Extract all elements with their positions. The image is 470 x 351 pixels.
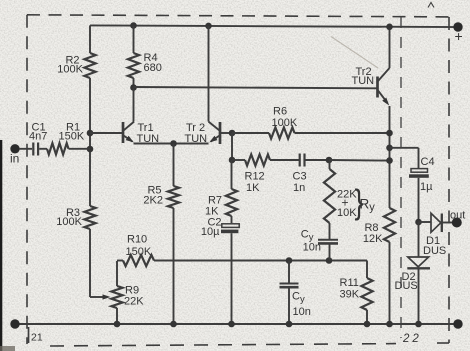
svg-text:1K: 1K: [246, 182, 260, 194]
svg-text:39K: 39K: [340, 289, 360, 301]
svg-text:21: 21: [31, 332, 43, 344]
svg-text:100K: 100K: [56, 216, 82, 228]
svg-text:DUS: DUS: [395, 280, 418, 292]
svg-text:10µ: 10µ: [201, 226, 220, 238]
svg-text:680: 680: [144, 62, 162, 74]
svg-text:2K2: 2K2: [143, 195, 163, 207]
svg-text:C4: C4: [421, 156, 435, 168]
svg-text:1µ: 1µ: [420, 181, 433, 193]
svg-text:R6: R6: [273, 106, 287, 118]
svg-text:150K: 150K: [126, 246, 152, 258]
svg-text:TUN: TUN: [352, 75, 375, 87]
svg-text:22K: 22K: [124, 296, 144, 308]
svg-text:22: 22: [402, 333, 422, 345]
svg-text:12K: 12K: [363, 233, 383, 245]
svg-text:1n: 1n: [293, 182, 305, 194]
svg-text:DUS: DUS: [423, 245, 446, 257]
svg-text:R12: R12: [245, 171, 265, 183]
svg-text:TUN: TUN: [185, 133, 208, 145]
svg-text:out: out: [450, 210, 465, 222]
svg-text:150K: 150K: [59, 131, 85, 143]
svg-text:in: in: [10, 152, 19, 166]
svg-text:C3: C3: [293, 171, 307, 183]
svg-text:100K: 100K: [272, 117, 298, 129]
svg-text:10n: 10n: [303, 242, 321, 254]
svg-text:R10: R10: [127, 234, 147, 246]
svg-text:R11: R11: [340, 277, 359, 289]
svg-text:100K: 100K: [57, 64, 83, 76]
svg-text:10n: 10n: [293, 306, 311, 318]
svg-text:+: +: [455, 28, 463, 44]
svg-text:4n7: 4n7: [29, 131, 47, 143]
